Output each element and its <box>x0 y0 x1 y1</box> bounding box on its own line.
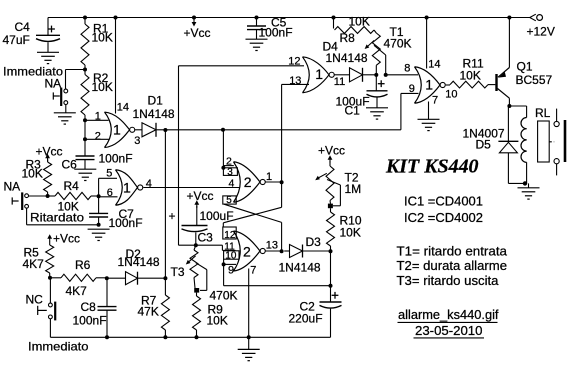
legend T3 <box>397 274 499 288</box>
svg-text:10K: 10K <box>340 226 361 240</box>
wire IC1D pin14 to rail <box>426 18 428 69</box>
label IC1 <box>404 195 483 209</box>
switch NA1 (Immediato) <box>45 77 68 107</box>
svg-text:1: 1 <box>95 110 101 122</box>
svg-text:NA: NA <box>4 179 21 193</box>
svg-text:+Vcc: +Vcc <box>36 144 63 158</box>
svg-text:+Vcc: +Vcc <box>187 189 214 203</box>
node IC2A output <box>280 180 284 184</box>
wire NA1 to ground <box>65 105 67 113</box>
legend T2 <box>397 259 508 273</box>
svg-text:C3: C3 <box>198 231 214 245</box>
capacitor C8 <box>73 278 117 337</box>
node rail junctions <box>83 16 511 20</box>
svg-text:+12V: +12V <box>527 24 555 38</box>
relay body <box>538 121 555 162</box>
power +Vcc (C3) <box>187 189 214 208</box>
svg-text:3: 3 <box>227 167 233 178</box>
wire pin2 <box>85 138 110 140</box>
node D1 output <box>163 128 167 132</box>
resistor R8 <box>334 15 377 46</box>
node IC2A pin3 <box>221 166 225 170</box>
op-amp IC1C NOR gate <box>288 56 345 93</box>
svg-text:C4: C4 <box>15 20 31 34</box>
terminal +12V <box>527 14 555 38</box>
svg-text:KIT KS440: KIT KS440 <box>385 156 479 177</box>
diode D4 1N4148 <box>323 40 368 82</box>
node T1 wiper/pin8 <box>384 73 388 77</box>
svg-text:R6: R6 <box>75 258 91 272</box>
wire IC2A pins 2-3 <box>222 130 224 168</box>
svg-text:C1: C1 <box>345 104 361 118</box>
wire IC2B output <box>265 250 281 252</box>
op-amp IC1D NOR gate <box>404 58 457 106</box>
svg-text:1: 1 <box>123 179 131 195</box>
svg-text:5: 5 <box>226 195 232 206</box>
pin10 stub box <box>224 250 239 261</box>
ground (C5) <box>246 39 268 50</box>
svg-text:R4: R4 <box>64 179 80 193</box>
svg-text:D3: D3 <box>306 235 322 249</box>
svg-text:10K: 10K <box>207 314 228 328</box>
svg-text:NC: NC <box>26 292 44 306</box>
resistor R11 <box>446 56 496 88</box>
op-amp IC1B NOR gate <box>106 168 152 206</box>
svg-text:2: 2 <box>243 243 251 259</box>
wire bottom ground rail <box>50 336 330 338</box>
resistor R10 <box>327 208 362 251</box>
node C3/T3 <box>194 243 198 247</box>
svg-text:T3: T3 <box>171 265 185 279</box>
svg-text:D1: D1 <box>148 93 164 107</box>
svg-text:7: 7 <box>250 265 256 277</box>
pin11 stub <box>222 241 235 252</box>
svg-text:13: 13 <box>266 239 278 251</box>
trimmer T3 470K <box>171 245 238 302</box>
svg-text:9: 9 <box>409 83 415 95</box>
node D3/R10/C2 <box>329 249 333 253</box>
diode D2 1N4148 <box>107 247 160 285</box>
svg-text:1: 1 <box>113 122 121 138</box>
diode D3 1N4148 <box>279 235 322 275</box>
label Immediato (bottom) <box>28 339 89 353</box>
node T1 body/pin8 <box>374 73 378 77</box>
svg-text:47K: 47K <box>138 305 159 319</box>
power +Vcc (T2) <box>318 143 345 162</box>
svg-text:100uF: 100uF <box>200 209 234 223</box>
svg-text:BC557: BC557 <box>516 73 553 87</box>
svg-text:+Vcc: +Vcc <box>318 143 345 157</box>
svg-text:T1= ritardo entrata: T1= ritardo entrata <box>397 244 508 258</box>
wire relay bottom <box>508 182 526 184</box>
pin9 stub <box>224 259 235 286</box>
node relay ground <box>523 181 527 185</box>
transistor Q1 BC557 <box>497 18 553 107</box>
label Immediato (top) <box>3 65 63 79</box>
node R5/R6/NC <box>48 276 52 280</box>
svg-text:8: 8 <box>404 63 410 75</box>
wire D4 cathode <box>363 74 377 76</box>
svg-text:100nF: 100nF <box>73 314 107 328</box>
svg-text:1N4148: 1N4148 <box>118 255 160 269</box>
svg-text:1: 1 <box>315 66 323 82</box>
wire NC to bottom rail <box>49 319 51 337</box>
node R7 bottom <box>163 335 167 339</box>
ground (C6) <box>74 169 96 180</box>
capacitor C7 <box>89 197 142 230</box>
wire pin5-6 stub <box>99 178 118 197</box>
wire IC2B output13 to IC2A pin5 (diagonal) <box>224 204 282 251</box>
svg-text:12: 12 <box>288 56 300 68</box>
wire IC1D pin7 to ground <box>428 102 430 120</box>
pin4 label <box>229 177 235 189</box>
node C7 bottom <box>97 223 101 227</box>
legend T1 <box>397 244 508 258</box>
node R1/R2 junction <box>83 68 87 72</box>
svg-text:10: 10 <box>225 250 237 261</box>
resistor R1 <box>81 18 113 70</box>
svg-text:RL: RL <box>535 106 551 120</box>
svg-text:100nF: 100nF <box>109 216 143 230</box>
node C8 bottom <box>105 335 109 339</box>
wire D1 cathode <box>156 129 165 131</box>
date <box>414 324 485 338</box>
op-amp IC2A NOR gate <box>234 162 273 203</box>
svg-text:R8: R8 <box>340 31 356 45</box>
resistor R5 <box>23 242 54 278</box>
label IC2 <box>404 211 483 225</box>
svg-text:Immediato: Immediato <box>28 339 89 353</box>
node C2 top <box>329 284 333 288</box>
svg-text:14: 14 <box>117 101 129 113</box>
ground (C4) <box>37 52 59 63</box>
wire IC1B output 4 <box>143 187 240 189</box>
svg-text:1N4148: 1N4148 <box>133 107 175 121</box>
svg-text:10K: 10K <box>92 80 113 94</box>
wire output1 to IC2B pin12 (diagonal) <box>223 182 281 227</box>
pin5 stub box <box>223 195 236 206</box>
node D2/R7/D1net <box>163 276 167 280</box>
wire pin9 entry <box>224 263 236 265</box>
svg-text:1M: 1M <box>345 182 362 196</box>
node T3 wiper (square) <box>194 288 199 293</box>
op-amp IC2B NOR gate <box>234 231 279 271</box>
wire IC1 pin14 to rail <box>115 18 117 114</box>
wire IC2B pin7 to ground <box>249 265 257 338</box>
svg-text:+: + <box>169 209 176 223</box>
title KIT KS440 <box>385 156 479 177</box>
wire +Vcc top rail <box>48 17 531 19</box>
svg-text:10K: 10K <box>22 167 43 181</box>
svg-text:C8: C8 <box>81 300 97 314</box>
wire to IC1D pin8 <box>386 74 418 76</box>
svg-text:T2= durata allarme: T2= durata allarme <box>397 259 508 273</box>
wire output1 to IC1C pin13 <box>281 84 283 182</box>
switch NA2 (Ritardato) <box>12 192 28 210</box>
resistor R6 <box>50 258 107 298</box>
wire D2 cathode <box>138 277 166 279</box>
wire IC2B pins9-10 to C2 node <box>224 285 331 287</box>
wire D1 node down to D2 <box>164 130 166 279</box>
svg-text:470K: 470K <box>210 289 238 303</box>
power +Vcc (R5) <box>47 232 80 246</box>
wire up to IC1D pin9 <box>401 93 419 129</box>
svg-text:IC1 =CD4001: IC1 =CD4001 <box>404 195 483 209</box>
switch NC (Immediato) <box>26 278 56 321</box>
svg-text:10K: 10K <box>349 15 370 29</box>
wire IC1C pin12 vertical <box>178 66 180 245</box>
capacitor C5 <box>247 16 293 40</box>
svg-text:14: 14 <box>428 58 440 70</box>
wire D1 node to pin9 (horizontal) <box>165 129 401 131</box>
capacitor C3 100uF <box>169 206 234 245</box>
svg-text:1: 1 <box>425 77 433 93</box>
node pin2 <box>83 137 87 141</box>
diode D5 1N4007 <box>463 106 519 183</box>
svg-text:2: 2 <box>226 155 232 167</box>
relay coil RL <box>521 106 551 184</box>
label Ritardato <box>30 210 84 224</box>
wire C3 node <box>179 244 223 246</box>
trimmer T2 1M <box>315 161 361 206</box>
ground (IC1 pin7) <box>418 119 440 130</box>
resistor R4 <box>48 179 99 214</box>
svg-text:4K7: 4K7 <box>66 284 88 298</box>
pin3 stub box <box>223 167 237 178</box>
resistor R3 <box>22 157 52 196</box>
svg-text:10K: 10K <box>460 68 481 82</box>
resistor R9 <box>193 293 228 338</box>
svg-text:10K: 10K <box>58 200 79 214</box>
svg-text:23-05-2010: 23-05-2010 <box>415 324 483 338</box>
svg-text:470K: 470K <box>384 37 412 51</box>
svg-text:10K: 10K <box>92 31 113 45</box>
node T2 wiper (square) <box>328 204 333 209</box>
svg-text:4K7: 4K7 <box>23 257 45 271</box>
node IC2B pin9-10 <box>222 262 226 266</box>
wire D3 cathode <box>303 250 331 252</box>
svg-text:47uF: 47uF <box>3 33 30 47</box>
ground (relay) <box>518 183 540 199</box>
svg-text:4: 4 <box>229 177 235 189</box>
ground (bottom rail) <box>238 337 260 360</box>
resistor R2 <box>81 70 113 116</box>
node pin1 <box>83 118 87 122</box>
svg-text:D5: D5 <box>476 138 492 152</box>
svg-text:6: 6 <box>107 187 113 199</box>
label NA (ritardato) <box>4 179 21 193</box>
ground (C7) <box>88 229 110 240</box>
relay contacts <box>554 109 565 176</box>
svg-text:13: 13 <box>289 75 301 87</box>
svg-text:11: 11 <box>334 76 345 88</box>
wire NA2 to C7 bottom <box>27 208 99 225</box>
svg-text:3: 3 <box>134 135 140 147</box>
wire gate3 to D1 <box>135 129 142 131</box>
filename <box>398 308 500 323</box>
capacitor C1 100uF <box>336 75 388 118</box>
node Q1 collector <box>507 104 511 108</box>
svg-text:10: 10 <box>445 89 457 101</box>
node R6/C8/D2 <box>105 276 109 280</box>
wire pin1 <box>85 119 109 121</box>
wire pin12 <box>179 65 305 67</box>
svg-text:100nF: 100nF <box>259 26 293 40</box>
svg-text:IC2 =CD4002: IC2 =CD4002 <box>404 211 483 225</box>
svg-text:1N4148: 1N4148 <box>326 51 368 65</box>
diode D1 1N4148 <box>133 93 175 137</box>
svg-text:2: 2 <box>244 174 252 190</box>
power tap +Vcc (rail) <box>184 18 211 41</box>
ground (NA1) <box>54 113 76 124</box>
node IC2B output <box>280 249 284 253</box>
svg-text:1N4148: 1N4148 <box>279 261 321 275</box>
svg-text:100nF: 100nF <box>99 152 133 166</box>
svg-text:2: 2 <box>95 131 101 143</box>
svg-text:NA: NA <box>45 77 62 91</box>
wire NA2 <box>29 195 48 197</box>
node IC2A pins2-3 tap <box>221 128 225 132</box>
op-amp IC1A NOR gate <box>95 101 141 147</box>
node R4/IC1B <box>97 194 101 198</box>
svg-text:allarme_ks440.gif: allarme_ks440.gif <box>398 308 499 322</box>
power +Vcc (R3) <box>36 144 63 161</box>
wire collector node <box>509 106 526 118</box>
node R3/R4/NA2 <box>46 194 50 198</box>
resistor R7 <box>138 278 170 337</box>
node IC2 pin7 bottom <box>247 335 251 339</box>
svg-text:4: 4 <box>146 178 152 190</box>
svg-text:7: 7 <box>432 94 438 106</box>
svg-text:220uF: 220uF <box>289 311 323 325</box>
svg-text:1: 1 <box>266 171 272 183</box>
ground (C1) <box>366 108 388 119</box>
wire IC2A output <box>265 181 281 183</box>
capacitor C4 <box>3 18 61 53</box>
svg-text:Q1: Q1 <box>517 60 533 74</box>
svg-text:T3= ritardo uscita: T3= ritardo uscita <box>397 274 499 288</box>
node R9 bottom <box>195 335 199 339</box>
trimmer T1 470K <box>365 25 412 75</box>
wire R2 to IC1A <box>84 115 86 156</box>
wire pin13 <box>282 83 309 85</box>
wire Immediato <box>66 70 86 90</box>
svg-text:+Vcc: +Vcc <box>184 26 211 40</box>
capacitor C6 <box>62 152 133 172</box>
capacitor C2 220uF <box>289 251 342 337</box>
pin2 stub <box>223 155 233 167</box>
svg-text:5: 5 <box>106 168 112 180</box>
svg-text:+Vcc: +Vcc <box>53 232 80 246</box>
pin12 stub box <box>223 227 236 241</box>
